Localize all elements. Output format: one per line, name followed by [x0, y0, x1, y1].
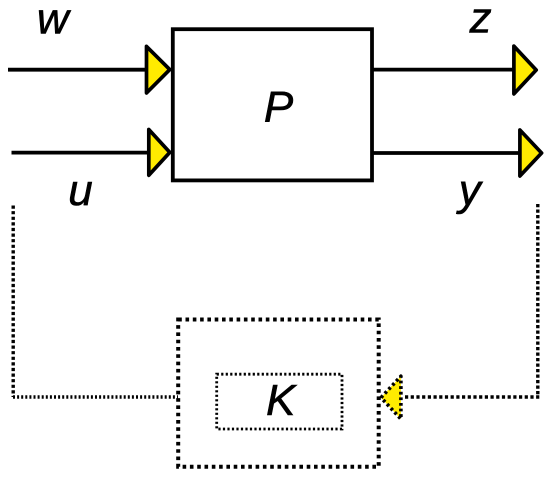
controller inner dotted box: [217, 374, 342, 429]
wire feedback left vertical (u path): [11, 206, 14, 398]
wire z output: [372, 68, 515, 72]
wire feedback right horizontal (y path): [405, 395, 540, 398]
svg-text:P: P: [264, 82, 294, 131]
arrowhead z output: [514, 46, 536, 94]
arrowhead u into P: [149, 130, 170, 176]
svg-text:K: K: [266, 376, 297, 425]
arrowhead y output: [520, 130, 542, 176]
controller outer dotted box: [178, 320, 379, 467]
wire w input: [8, 68, 152, 72]
arrowhead feedback into K box: [381, 376, 401, 419]
wire y output: [372, 151, 519, 155]
wire feedback left horizontal (u path): [13, 395, 178, 398]
svg-text:u: u: [68, 166, 92, 215]
wire u input: [12, 151, 153, 155]
wire feedback right vertical (y path): [536, 204, 539, 395]
arrowhead w into P: [147, 46, 170, 93]
svg-text:w: w: [37, 0, 72, 43]
plant block P: [173, 29, 372, 180]
svg-text:y: y: [456, 166, 484, 215]
svg-text:z: z: [469, 0, 492, 43]
